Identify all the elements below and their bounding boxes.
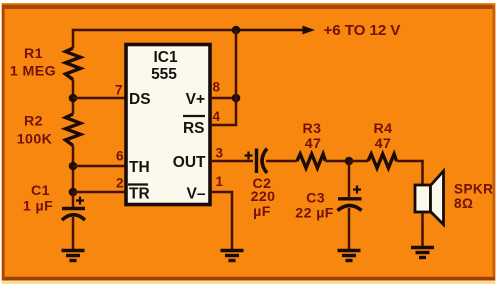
ground V- (221, 251, 244, 261)
supply arrowhead (303, 26, 316, 35)
svg-text:OUT: OUT (173, 154, 206, 171)
svg-text:1 MEG: 1 MEG (10, 63, 56, 79)
capacitor C1 (62, 197, 85, 221)
svg-text:C3: C3 (306, 190, 325, 206)
resistor R4 (368, 154, 397, 168)
svg-text:R1: R1 (24, 46, 43, 62)
svg-text:C1: C1 (31, 183, 50, 199)
svg-text:R3: R3 (303, 121, 322, 137)
svg-text:220: 220 (251, 189, 276, 205)
node pin7 junction (69, 94, 78, 103)
svg-text:1: 1 (216, 174, 224, 189)
svg-text:R2: R2 (24, 114, 43, 130)
svg-text:TH: TH (129, 159, 150, 176)
svg-text:3: 3 (216, 146, 224, 161)
svg-text:8: 8 (213, 80, 221, 95)
svg-text:8Ω: 8Ω (454, 196, 473, 211)
svg-text:RS: RS (183, 120, 205, 137)
pin label RS overline (183, 115, 205, 117)
wire node to R4 (349, 160, 368, 163)
svg-text:µF: µF (253, 204, 271, 220)
ground C1 (62, 251, 85, 261)
ground SPKR (411, 248, 434, 258)
svg-text:100K: 100K (17, 132, 53, 148)
wire V+ stub pin8 (210, 97, 236, 100)
wire DS stub pin7 (73, 97, 126, 100)
svg-text:7: 7 (115, 83, 123, 98)
wire R2 to TH node (72, 146, 75, 193)
node pin8 junction (232, 94, 241, 103)
wire R4 to speaker (397, 161, 423, 185)
svg-text:TR: TR (129, 186, 150, 203)
resistor R2 (66, 114, 81, 146)
wire R1 to node (72, 80, 75, 115)
svg-text:47: 47 (305, 136, 322, 152)
node pin2 junction (69, 188, 78, 197)
svg-text:V–: V– (187, 186, 206, 203)
wire TR stub pin2 (73, 191, 126, 194)
wire C3 to ground (348, 208, 351, 250)
op-amp U1 IC box (126, 45, 210, 205)
capacitor C3 (338, 186, 362, 211)
svg-text:6: 6 (116, 149, 124, 164)
wire top rail (73, 30, 236, 48)
svg-text:4: 4 (213, 109, 221, 124)
wire speaker to ground (421, 212, 424, 247)
ground C3 (338, 251, 361, 261)
svg-text:V+: V+ (186, 91, 205, 108)
svg-text:IC1: IC1 (153, 49, 178, 66)
wire OUT stub pin3 (210, 160, 253, 163)
svg-text:47: 47 (375, 136, 392, 152)
pin label TR overline (128, 183, 148, 185)
capacitor C2 (245, 149, 268, 174)
svg-text:R4: R4 (374, 121, 393, 137)
supply arrow line (236, 29, 305, 32)
wire C2 to R3 (266, 160, 297, 163)
svg-text:SPKR: SPKR (454, 182, 493, 197)
svg-text:DS: DS (129, 91, 151, 108)
wire TH stub pin6 (73, 165, 126, 168)
node pin6 junction (69, 162, 78, 171)
wire node to C1 (72, 192, 75, 207)
speaker SPKR (415, 171, 444, 225)
node C3 junction (345, 157, 354, 166)
wire C3 drop (348, 161, 351, 197)
node junction top rail (232, 26, 241, 35)
svg-text:2: 2 (116, 176, 124, 191)
svg-text:555: 555 (151, 66, 177, 83)
wire C1 to ground (72, 217, 75, 250)
resistor R3 (297, 154, 326, 168)
wire V- stub pin1 (210, 192, 232, 250)
svg-text:+6 TO 12 V: +6 TO 12 V (324, 22, 402, 39)
wire RS stub pin4 (210, 30, 236, 125)
resistor R1 (66, 48, 81, 80)
svg-text:1 µF: 1 µF (23, 198, 53, 214)
svg-text:22 µF: 22 µF (295, 205, 334, 221)
wire R3 to node (326, 160, 350, 163)
